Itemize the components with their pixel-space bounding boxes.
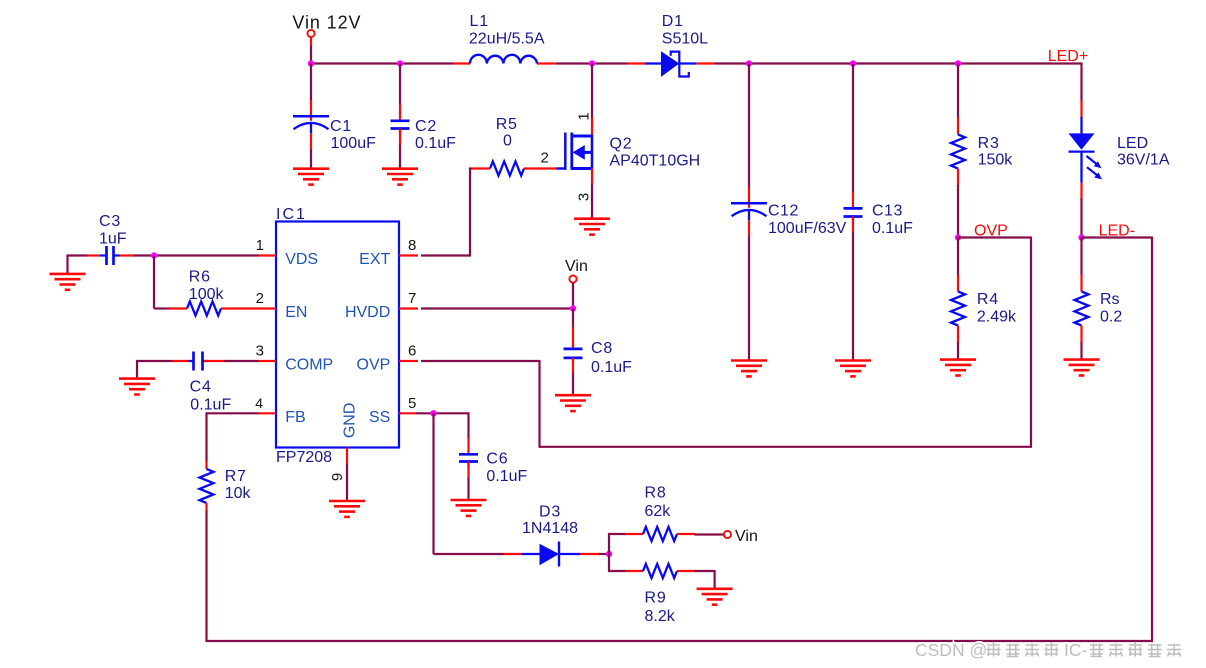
svg-text:Rs: Rs — [1100, 291, 1120, 308]
label Vin at R8 — [735, 528, 758, 545]
pin 8 stub — [399, 237, 418, 255]
capacitor C4 0.1uF — [189, 352, 232, 414]
wire ground to C4 — [136, 360, 192, 362]
wire R7 bottom stub — [205, 503, 207, 511]
wire R8 to Vin terminal — [695, 533, 724, 535]
wire R3 to OVP node — [957, 169, 959, 238]
svg-text:0.1uF: 0.1uF — [190, 397, 231, 414]
svg-text:SS: SS — [369, 409, 390, 426]
ground Rs — [1064, 360, 1100, 376]
svg-text:EXT: EXT — [359, 251, 390, 268]
wire C3 ground stub — [66, 255, 68, 274]
svg-text:R8: R8 — [645, 485, 667, 502]
svg-text:GND: GND — [342, 403, 359, 439]
wire VDS node down to EN row — [154, 256, 170, 309]
ground C2 — [382, 169, 418, 185]
wire OVP to pin6 OVP — [421, 237, 1032, 448]
wire D3 cathode stub — [580, 553, 600, 555]
wire pin4 to R7 — [207, 412, 259, 469]
svg-text:0.2: 0.2 — [1100, 309, 1122, 326]
capacitor C13 0.1uF — [844, 202, 914, 237]
wire OVP node to R4 — [957, 238, 959, 292]
node C12 junction — [746, 60, 752, 66]
svg-text:R6: R6 — [189, 269, 211, 286]
resistor R8 62k — [643, 485, 677, 542]
svg-text:1: 1 — [256, 237, 264, 254]
watermark CSDN — [915, 640, 1181, 660]
net label LED- — [1099, 223, 1135, 240]
svg-text:COMP: COMP — [285, 357, 333, 374]
resistor R5 0 — [490, 116, 524, 176]
wire rail to C13 — [852, 64, 854, 209]
wire C3 to pin1 — [120, 254, 259, 256]
wire LED- node to Rs — [1080, 238, 1082, 292]
node Vin junction — [308, 60, 314, 66]
pin name VDS — [285, 251, 318, 268]
node SW junction — [589, 60, 595, 66]
svg-text:2: 2 — [256, 290, 264, 307]
resistor R3 150k — [951, 135, 1013, 169]
wire C1 to ground — [310, 133, 312, 168]
svg-text:R7: R7 — [225, 468, 247, 485]
wire rail to C12 — [748, 64, 750, 208]
wire R5 to Q2 gate — [524, 167, 557, 169]
wire C4 to pin3 — [204, 360, 259, 362]
ground C6 — [451, 500, 487, 516]
node D3 divider — [606, 551, 612, 557]
capacitor C8 0.1uF — [564, 340, 633, 376]
pin name HVDD — [345, 304, 390, 321]
svg-text:CSDN @: CSDN @ — [915, 640, 987, 660]
wire Rs to ground — [1080, 326, 1082, 360]
node C13 junction — [850, 60, 856, 66]
transistor Q2 AP40T10GH — [557, 133, 701, 170]
wire R5 to EXT — [469, 168, 472, 256]
wire Vin terminal down — [572, 283, 574, 309]
wire ground to C3 — [67, 254, 101, 256]
svg-text:C2: C2 — [415, 118, 437, 135]
capacitor C2 0.1uF — [391, 118, 457, 152]
ground IC pin 9 — [329, 501, 365, 517]
svg-text:OVP: OVP — [357, 357, 391, 374]
wire SS node to D3 — [434, 413, 505, 554]
svg-text:2: 2 — [541, 149, 549, 166]
svg-text:R5: R5 — [496, 116, 518, 133]
svg-text:C3: C3 — [99, 213, 121, 230]
pin 9 stub — [329, 448, 347, 502]
wire R9 right stub — [677, 570, 696, 572]
wire LED- to R7 bottom — [207, 237, 1154, 643]
svg-text:S510L: S510L — [662, 30, 708, 47]
pin 4 stub — [255, 395, 276, 413]
svg-text:8.2k: 8.2k — [645, 608, 676, 625]
wire L1 left stub — [453, 62, 470, 64]
svg-text:C12: C12 — [768, 202, 799, 219]
svg-text:0: 0 — [503, 133, 512, 150]
svg-text:Q2: Q2 — [610, 135, 633, 152]
net label OVP — [974, 223, 1008, 240]
svg-text:D1: D1 — [662, 13, 684, 30]
resistor R4 2.49k — [951, 291, 1017, 326]
diode D3 1N4148 — [522, 504, 580, 567]
svg-text:0.1uF: 0.1uF — [415, 135, 456, 152]
wire pin7 to Vin node — [421, 307, 573, 309]
pin 7 stub — [399, 290, 418, 308]
svg-text:9: 9 — [329, 473, 346, 481]
ground C13 — [835, 361, 871, 377]
svg-text:100k: 100k — [189, 286, 225, 303]
svg-text:R3: R3 — [978, 135, 1000, 152]
svg-text:4: 4 — [255, 395, 263, 411]
svg-text:0.1uF: 0.1uF — [872, 220, 913, 237]
svg-text:R4: R4 — [977, 291, 999, 308]
pin name OVP — [357, 357, 391, 374]
wire D3 to divider node — [599, 553, 609, 555]
wire C6 to ground — [467, 462, 469, 501]
wire pin8 EXT to R5 — [421, 254, 471, 256]
wire R6 to pin2 — [221, 307, 259, 309]
node VDS — [151, 252, 157, 258]
pin name SS — [369, 409, 390, 426]
ground C8 — [555, 395, 591, 411]
capacitor C1 100uF — [293, 116, 376, 152]
svg-text:1uF: 1uF — [99, 231, 127, 248]
pin name FB — [285, 409, 305, 426]
svg-text:22uH/5.5A: 22uH/5.5A — [469, 30, 545, 47]
node R3 junction — [955, 60, 961, 66]
svg-text:100uF: 100uF — [331, 135, 377, 152]
svg-text:0.1uF: 0.1uF — [591, 359, 632, 376]
svg-text:VDS: VDS — [285, 251, 318, 268]
inductor L1 — [469, 13, 545, 64]
wire R4 to ground — [957, 326, 959, 360]
svg-text:2.49k: 2.49k — [977, 309, 1017, 326]
wire rail to R3 — [957, 64, 959, 135]
svg-text:3: 3 — [256, 343, 264, 360]
pin 3 stub — [256, 343, 276, 361]
svg-text:L1: L1 — [470, 13, 489, 30]
LED D2 36V/1A — [1069, 117, 1170, 183]
node C2 junction — [397, 60, 403, 66]
pin 6 stub — [399, 343, 418, 361]
svg-text:6: 6 — [408, 343, 416, 360]
port Vin terminal R8 — [724, 531, 731, 538]
svg-text:C4: C4 — [190, 379, 212, 396]
svg-text:Vin 12V: Vin 12V — [292, 13, 361, 33]
capacitor C6 0.1uF — [459, 450, 528, 485]
wire Vin port to rail — [310, 37, 312, 63]
svg-text:62k: 62k — [645, 503, 672, 520]
port Vin terminal C8 — [569, 275, 576, 282]
pin 1 stub — [256, 237, 276, 255]
svg-text:1: 1 — [576, 112, 593, 120]
svg-text:36V/1A: 36V/1A — [1117, 152, 1170, 169]
ground C1 — [293, 169, 329, 185]
wire C13 to ground — [852, 217, 854, 361]
svg-text:10k: 10k — [225, 485, 252, 502]
wire pin5 to C6 — [416, 412, 469, 454]
wire C8 to ground — [572, 358, 574, 395]
node OVP — [955, 234, 961, 240]
wire R8 right stub — [677, 533, 696, 535]
pin 2 stub — [256, 290, 276, 308]
svg-text:C1: C1 — [330, 118, 352, 135]
node HVDD — [570, 305, 576, 311]
svg-text:FP7208: FP7208 — [276, 449, 332, 466]
svg-text:R9: R9 — [645, 590, 667, 607]
pin 3 label Q2 — [576, 193, 593, 201]
wire node to R9 — [608, 570, 643, 572]
wire C2 to ground — [399, 129, 401, 169]
wire D1 cathode stub — [696, 62, 714, 64]
diode D1 S510L — [645, 13, 708, 77]
svg-text:IC-: IC- — [1064, 640, 1088, 660]
svg-text:C6: C6 — [486, 450, 508, 467]
pin name EXT — [359, 251, 390, 268]
wire node to R8 — [608, 533, 643, 535]
wire D3 anode stub — [504, 553, 523, 555]
svg-text:IC1: IC1 — [276, 206, 307, 223]
wire Q2 source to ground — [591, 169, 593, 219]
resistor R9 8.2k — [643, 564, 677, 625]
pin 5 stub — [399, 395, 417, 413]
ground C4 — [119, 379, 155, 395]
wire divider riser — [608, 533, 610, 572]
wire SW to Q2 drain — [591, 64, 593, 137]
wire R5 left stub — [472, 167, 490, 169]
resistor R6 100k — [187, 269, 224, 316]
wire R6 left stub — [169, 307, 188, 309]
resistor R7 10k — [200, 468, 252, 503]
capacitor C3 1uF — [99, 213, 127, 265]
wire R9 to ground — [695, 570, 715, 589]
svg-text:AP40T10GH: AP40T10GH — [610, 152, 701, 169]
svg-text:EN: EN — [285, 304, 307, 321]
ground C12 — [731, 361, 767, 377]
svg-text:LED+: LED+ — [1048, 48, 1088, 65]
op-amp U1 IC1 FP7208 box — [276, 206, 399, 466]
wire LED+ to LED — [1080, 100, 1082, 118]
svg-text:5: 5 — [408, 395, 416, 412]
capacitor C12 100uF/63V — [731, 202, 847, 237]
svg-text:Vin: Vin — [565, 258, 588, 275]
port Vin 12V terminal — [307, 30, 314, 37]
wire rail to C1 — [310, 64, 312, 121]
wire top rail Vin to L1 — [310, 62, 453, 64]
label Vin at C8 — [565, 258, 588, 275]
wire L1 right stub — [537, 62, 556, 64]
svg-text:100uF/63V: 100uF/63V — [768, 220, 847, 237]
node LED- — [1078, 234, 1084, 240]
ground R9 — [697, 589, 733, 605]
wire rail L1 to D1 — [556, 62, 628, 64]
svg-text:FB: FB — [285, 409, 305, 426]
ground Q2 source — [574, 219, 610, 235]
ground C3 — [50, 274, 86, 290]
node SS — [430, 410, 436, 416]
wire rail to C2 — [399, 64, 401, 121]
svg-text:7: 7 — [408, 290, 416, 307]
pin name EN — [285, 304, 307, 321]
pin name COMP — [285, 357, 333, 374]
pin 2 label Q2 — [541, 149, 549, 166]
svg-text:C13: C13 — [872, 202, 903, 219]
label Vin 12V — [292, 13, 361, 33]
svg-text:8: 8 — [408, 237, 416, 254]
wire node to C8 — [572, 309, 574, 349]
svg-text:Vin: Vin — [735, 528, 758, 545]
svg-text:0.1uF: 0.1uF — [486, 468, 527, 485]
wire output rail D1 to LED+ — [715, 63, 1082, 102]
svg-text:3: 3 — [576, 193, 593, 201]
wire LED to LED- node — [1080, 183, 1082, 238]
resistor Rs 0.2 — [1075, 291, 1123, 326]
net label LED+ — [1048, 48, 1088, 65]
svg-text:D3: D3 — [539, 504, 561, 521]
pin name GND — [342, 403, 359, 439]
svg-text:C8: C8 — [591, 340, 613, 357]
ground R4 — [940, 360, 976, 376]
svg-text:LED: LED — [1117, 135, 1148, 152]
wire C12 to ground — [748, 220, 750, 360]
wire D1 anode stub — [628, 62, 646, 64]
wire C4 ground stub — [136, 361, 138, 379]
svg-text:150k: 150k — [978, 152, 1014, 169]
svg-text:1N4148: 1N4148 — [522, 520, 578, 537]
pin 1 label Q2 — [576, 112, 593, 120]
svg-text:HVDD: HVDD — [345, 304, 390, 321]
